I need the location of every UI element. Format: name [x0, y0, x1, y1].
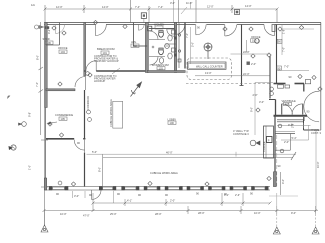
svg-text:7'-0": 7'-0" [284, 65, 289, 69]
corridor wall y99.5 [269, 99, 276, 101]
vestibule bottom wall [274, 115, 308, 117]
conference bottom wall [46, 138, 74, 140]
svg-text:12'-0": 12'-0" [56, 5, 63, 9]
counter arm right [275, 133, 295, 135]
circle symbols right [278, 124, 282, 128]
svg-text:7'-0": 7'-0" [282, 47, 286, 52]
svg-text:WILL CALL COUNTER: WILL CALL COUNTER [196, 64, 223, 68]
svg-text:8'-0": 8'-0" [36, 55, 40, 60]
office 109 west wall [241, 25, 243, 86]
svg-text:40'-0": 40'-0" [166, 151, 173, 155]
corner jamb marks [45, 26, 47, 29]
wc toilet 3 [168, 35, 172, 41]
main top wall [44, 23, 321, 25]
svg-text:SANITARY HOOKUP: SANITARY HOOKUP [94, 59, 119, 63]
sub dim ticks left [73, 191, 114, 203]
svg-text:28'-0": 28'-0" [155, 212, 162, 216]
exterior door arc bottom [92, 190, 102, 200]
ceiling fan symbol lobby [204, 43, 212, 59]
wc toilet 1 [159, 31, 164, 37]
svg-text:HOOKUP: HOOKUP [94, 79, 106, 83]
door tag circle breakroom [86, 72, 90, 76]
top dimension line [45, 0, 277, 23]
triangle marker B [273, 227, 280, 234]
svg-text:7'-0": 7'-0" [185, 33, 189, 38]
conference leader arrow [49, 122, 57, 123]
svg-text:10'-0": 10'-0" [60, 212, 67, 216]
left edge dark arrow [11, 145, 16, 150]
svg-text:COFFEE: COFFEE [262, 141, 266, 152]
svg-text:22'-0": 22'-0" [243, 72, 250, 76]
wall x275 [274, 116, 276, 172]
left vertical dimension line [39, 22, 49, 226]
storage door arc [56, 25, 65, 34]
VESTIBULE label [282, 99, 297, 106]
dim slash ticks [43, 8, 318, 213]
svg-text:CUBICLE WORK AREA: CUBICLE WORK AREA [150, 171, 178, 175]
svg-text:STOR.: STOR. [43, 37, 51, 41]
grid line to triangle C [315, 211, 317, 229]
vestibule top wall left seg [274, 83, 286, 85]
mop sink [148, 26, 152, 31]
will call dashed area [187, 58, 232, 80]
CONFERENCE room label [55, 113, 73, 121]
east door wall stubs [303, 84, 305, 92]
svg-text:7'-4": 7'-4" [158, 5, 163, 9]
grid line to triangle A left [44, 211, 46, 227]
conference door leaf and arc [74, 140, 84, 153]
flush valves [175, 37, 177, 40]
triangle marker A [41, 225, 48, 232]
svg-text:4'-1": 4'-1" [224, 193, 229, 197]
alcove fixtures below top wall [278, 85, 284, 88]
cubicle area top line [103, 157, 293, 159]
JAN label [131, 40, 139, 48]
exterior double doors east swing [304, 91, 319, 122]
right edge wall x321 [320, 23, 322, 131]
contractor note 2 [94, 74, 116, 83]
restroom entry door arc [167, 29, 174, 36]
north arrow [131, 82, 142, 97]
fixture rects right of vestibule top wall [305, 80, 310, 84]
x-box symbol [247, 62, 250, 65]
NE room dim y29 [282, 28, 314, 30]
svg-text:2'-3": 2'-3" [235, 193, 240, 197]
restroom bottom wall hatched [147, 71, 185, 73]
svg-text:2'-0": 2'-0" [170, 199, 175, 203]
dim extension x190 [189, 27, 191, 64]
svg-text:3'-0": 3'-0" [170, 1, 175, 5]
lavatory 2 [172, 48, 176, 52]
wc toilet 5 [159, 58, 163, 64]
wall y130 to right edge [304, 129, 320, 131]
note text right edge B [311, 128, 322, 135]
dashed ceiling line lobby [186, 82, 270, 84]
svg-text:11'-0": 11'-0" [186, 1, 192, 5]
svg-text:CONFERENCE: CONFERENCE [55, 113, 73, 117]
bottom dim tier1 [93, 193, 270, 211]
window jambs [49, 186, 269, 190]
dim line y140 [281, 139, 309, 141]
svg-text:2'-0": 2'-0" [251, 62, 256, 66]
left edge symbol circle E [19, 122, 27, 127]
door arc top wall vestibule corridor [264, 25, 275, 36]
wc toilet 4 [168, 53, 172, 59]
stall partitions [149, 40, 176, 57]
exterior edge line SE [269, 195, 298, 197]
svg-text:3'-0": 3'-0" [259, 100, 264, 104]
small jamb rect at top of x276.5 wall [272, 25, 275, 32]
window tags [56, 192, 253, 198]
svg-text:28'-0": 28'-0" [198, 211, 205, 215]
svg-text:3'-0": 3'-0" [74, 194, 79, 198]
marker flag left of top wall [35, 25, 44, 29]
svg-text:7'-0": 7'-0" [35, 82, 39, 87]
counter bay bottom line [276, 149, 291, 151]
door tag circle 1 [87, 110, 91, 114]
note text right middle A [233, 129, 249, 136]
triangle marker C [312, 227, 319, 234]
grid line B through plan [276, 135, 278, 186]
svg-text:CONTINUE 3: CONTINUE 3 [233, 132, 249, 136]
door arc top wall lobby 1 [196, 25, 206, 35]
jan closet wall [133, 23, 135, 47]
vestibule inner double doors [282, 104, 303, 115]
svg-text:4'-2": 4'-2" [47, 29, 51, 34]
svg-text:CUBICLE WORK AREA: CUBICLE WORK AREA [109, 99, 113, 127]
restroom block right wall hatched [174, 23, 176, 73]
cubicle area left line [102, 155, 104, 191]
right vertical dim [315, 131, 317, 209]
extra vertical near x246 [246, 40, 248, 53]
svg-text:2'-0": 2'-0" [253, 93, 258, 97]
restroom corridor east wall [184, 23, 186, 69]
restroom block left wall hatched [145, 23, 148, 73]
corridor door leaf and arc [175, 25, 185, 35]
svg-text:4'-0": 4'-0" [281, 179, 285, 184]
OFFICE room label [58, 46, 68, 54]
svg-text:13'-0": 13'-0" [205, 71, 212, 75]
svg-text:10'-0": 10'-0" [254, 211, 261, 215]
column grid square tag top right [235, 10, 240, 15]
chase drains [178, 34, 180, 36]
NE room dim y70.5 [278, 70, 310, 72]
restroom bottom label [152, 63, 169, 70]
left exterior wall lower thin [45, 108, 47, 189]
svg-text:12'-0": 12'-0" [207, 5, 214, 9]
vestibule west wall x275.5 [275, 100, 277, 116]
svg-text:OFFICE: OFFICE [251, 35, 261, 39]
coffee screen counter [264, 126, 274, 158]
svg-text:P: P [268, 138, 270, 142]
door arc top wall lobby 2 [225, 25, 237, 37]
lower lobby-vestibule corridor wall x270 [269, 56, 271, 99]
storage room west wall [59, 23, 61, 46]
svg-text:1/A: 1/A [31, 3, 35, 7]
svg-text:9'-0": 9'-0" [250, 107, 254, 112]
counter return line [290, 134, 292, 151]
bottom dim tier2 [44, 206, 318, 214]
svg-text:JAN.: JAN. [131, 40, 137, 44]
chase wall y120.8 [277, 120, 304, 122]
dim line y125.4 [277, 124, 311, 126]
svg-text:OFFICE: OFFICE [58, 46, 68, 50]
svg-text:108: 108 [285, 102, 290, 106]
lavatory 1 [172, 30, 176, 34]
storage room south wall [46, 44, 60, 46]
diamond SE [267, 176, 271, 180]
wall x275 lower hatched [273, 172, 276, 187]
window frames [53, 187, 266, 190]
wc toilet 2 [159, 48, 164, 54]
grid line to triangle B [276, 211, 278, 229]
chase wall x303.5 [303, 120, 305, 130]
restroom ceiling symbol [165, 44, 170, 49]
contractor note 1 [94, 54, 119, 63]
svg-text:104: 104 [61, 50, 66, 54]
svg-text:9'-0": 9'-0" [291, 211, 296, 215]
break room door leaf and arc into breakroom [86, 61, 96, 71]
squiggle mark left [8, 96, 11, 99]
bottom window wall [45, 187, 270, 191]
cubicle dim line [87, 153, 297, 155]
door tag 90 box upper [277, 39, 282, 43]
svg-text:105: 105 [61, 117, 66, 121]
break mark [291, 152, 296, 160]
top dimension texts [31, 1, 252, 9]
svg-text:CONT. 3: CONT. 3 [311, 131, 322, 135]
svg-text:103: 103 [159, 66, 164, 70]
svg-text:14'-0": 14'-0" [245, 4, 252, 8]
office/conference divider wall [46, 89, 75, 91]
circle tag near x-box [255, 39, 260, 44]
svg-text:7'-4": 7'-4" [135, 5, 140, 9]
svg-text:14'-0": 14'-0" [102, 5, 109, 9]
leader arrow note2 [112, 68, 120, 74]
svg-text:102: 102 [133, 44, 138, 48]
interior corridor wall x84 [84, 23, 86, 77]
svg-text:5'-0": 5'-0" [190, 42, 194, 47]
svg-text:8'-0": 8'-0" [98, 167, 102, 172]
svg-text:2'-0": 2'-0" [284, 140, 289, 144]
pier line x280.5 [280, 172, 282, 195]
svg-text:25'-0": 25'-0" [110, 212, 117, 216]
sw corner hatched [44, 178, 46, 190]
vertical dim x255 [254, 83, 256, 136]
restroom top label [154, 23, 164, 29]
break room bottom wall [96, 70, 148, 72]
svg-text:47'-0": 47'-0" [83, 214, 90, 218]
office door leaf and arc [75, 77, 86, 91]
svg-text:9'-0": 9'-0" [288, 123, 293, 127]
LOBBY label [168, 118, 177, 125]
svg-text:5'-4": 5'-4" [292, 136, 297, 140]
diamond markers [48, 20, 322, 186]
door tag circle 2 [88, 118, 92, 122]
22'-0 dim line lobby right [231, 53, 271, 55]
circle tags left of vestibule [270, 87, 274, 91]
will call counter [188, 62, 227, 69]
casework rect middle [113, 101, 123, 128]
circle tag above wall left [58, 181, 62, 185]
BREAK ROOM label [97, 47, 115, 55]
svg-text:9'-8": 9'-8" [28, 112, 32, 117]
svg-text:106: 106 [47, 41, 52, 45]
svg-text:BREAK ROOM: BREAK ROOM [97, 47, 115, 51]
svg-text:5'-0": 5'-0" [92, 150, 97, 154]
left exterior wall (hatched) [45, 23, 47, 108]
svg-text:22'-0": 22'-0" [243, 50, 250, 54]
section circle 1 [250, 140, 260, 146]
svg-text:1'-0": 1'-0" [28, 165, 32, 170]
right room west wall x276.5 [276, 25, 278, 84]
P box symbol [267, 137, 273, 143]
diamond near conference SE [59, 133, 63, 137]
vestibule top wall right seg [295, 83, 305, 85]
restroom north wall [149, 27, 174, 29]
door arc top wall at breakroom [95, 25, 106, 36]
column grid square tag top middle [141, 13, 146, 19]
floor drain [152, 46, 154, 48]
svg-text:4'-1": 4'-1" [127, 199, 132, 203]
interior dim line x282 [281, 25, 283, 56]
svg-text:1'-8": 1'-8" [282, 29, 286, 34]
svg-text:10'-0": 10'-0" [316, 161, 320, 168]
restroom door arcs [150, 31, 159, 65]
svg-text:CORRIDOR: CORRIDOR [86, 96, 90, 110]
door tag 90 box lower [277, 66, 282, 70]
svg-text:100: 100 [170, 121, 175, 125]
